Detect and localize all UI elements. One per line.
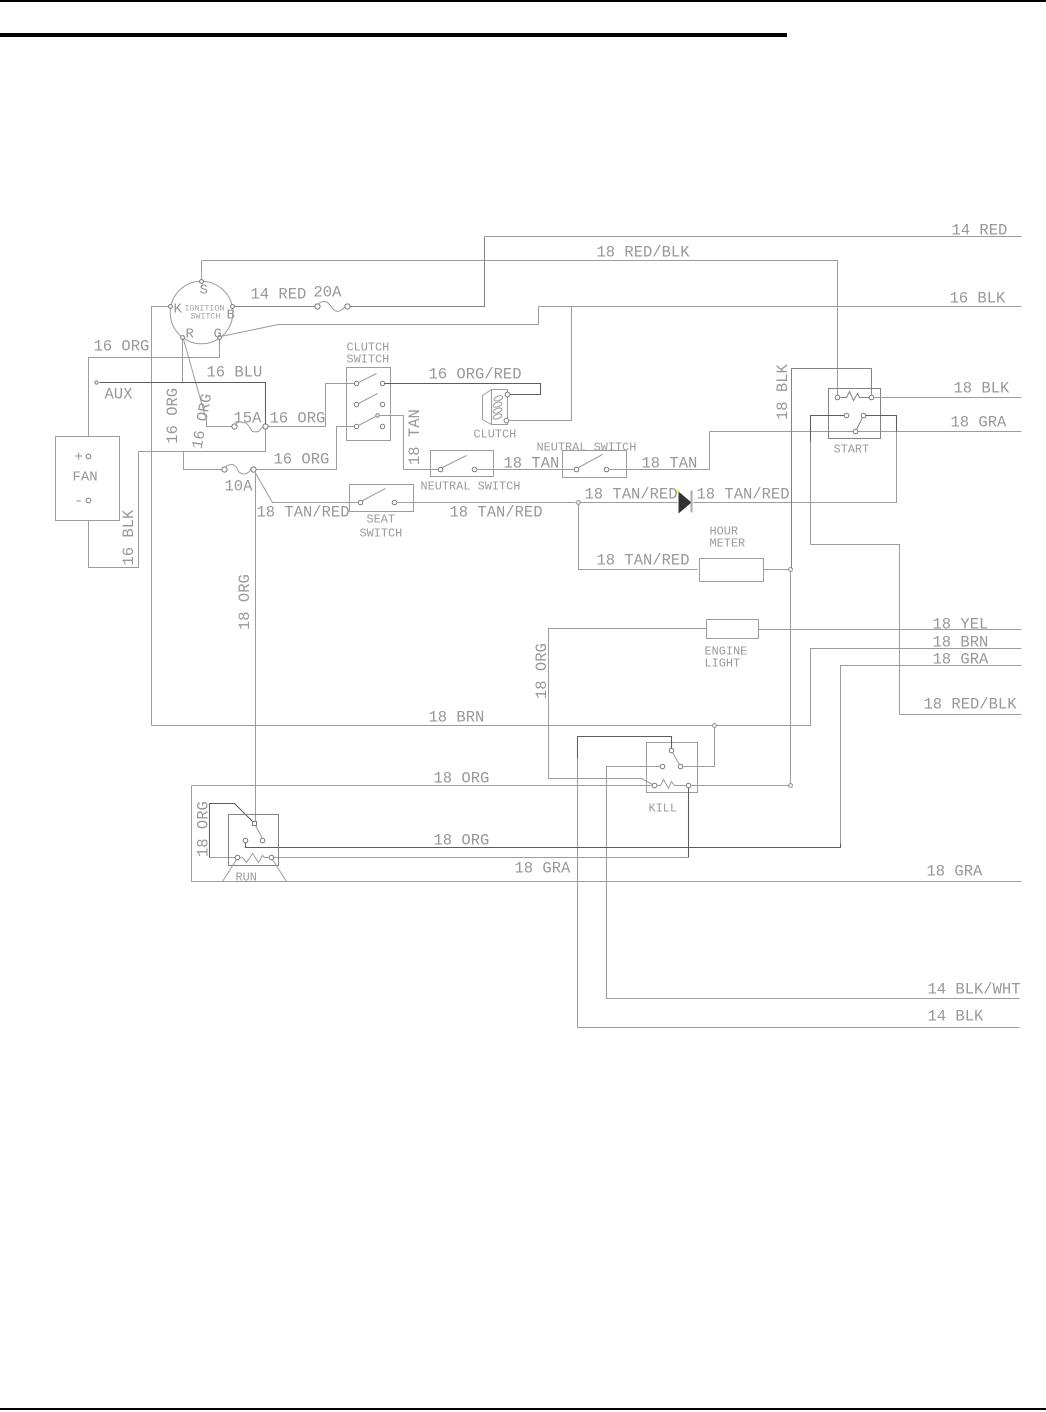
wire 18 GRA rail through START bottom xyxy=(710,431,1022,433)
wire fuse 20A to 14 RED corner xyxy=(351,237,485,307)
RUN pivot contact xyxy=(253,822,257,826)
wire branch to fuse 10A xyxy=(184,452,222,470)
page top rule thick xyxy=(0,33,787,37)
neutral switch 2 blade xyxy=(579,455,603,468)
node hour meter right xyxy=(789,568,793,572)
wire kill branch node to mid-right contact xyxy=(684,728,715,767)
svg-text:14 BLK: 14 BLK xyxy=(928,1008,985,1026)
wire vertical node to node xyxy=(790,572,792,784)
svg-text:18 RED/BLK: 18 RED/BLK xyxy=(924,696,1018,714)
fuse F1 20A xyxy=(315,304,320,309)
KILL top contact xyxy=(669,748,674,753)
neutral switch 1 contacts xyxy=(438,467,443,472)
svg-text:G: G xyxy=(214,327,222,343)
svg-text:18 TAN: 18 TAN xyxy=(642,455,698,473)
svg-text:K: K xyxy=(174,302,183,318)
svg-text:RUN: RUN xyxy=(236,871,257,885)
wire KILL top to 14 BLK chain xyxy=(578,737,672,759)
FAN plus terminal xyxy=(86,454,91,459)
START switch box xyxy=(829,389,881,439)
seat switch blade xyxy=(363,489,386,501)
page bottom rule xyxy=(0,1408,1046,1410)
svg-text:16 ORG: 16 ORG xyxy=(274,451,330,469)
svg-text:18 TAN/RED: 18 TAN/RED xyxy=(697,486,790,504)
RUN blade xyxy=(256,826,263,839)
clutch switch row1 blade xyxy=(359,374,377,383)
START top zigzag xyxy=(841,392,870,401)
svg-text:16 BLU: 16 BLU xyxy=(207,364,263,382)
wire 16 BLK loop fuse to FAN minus xyxy=(89,430,266,568)
svg-text:-: - xyxy=(75,494,83,510)
svg-text:NEUTRAL SWITCH: NEUTRAL SWITCH xyxy=(421,480,521,494)
wire hour meter feed drop xyxy=(579,504,698,570)
node kill bottom right rail xyxy=(789,784,793,788)
svg-text:16 BLK: 16 BLK xyxy=(120,509,138,566)
wire G diagonal to 16 BLK corner xyxy=(221,307,539,337)
svg-text:FAN: FAN xyxy=(73,470,98,486)
wire RUN mid-left to 18 GRA right bundle xyxy=(246,843,841,848)
wire 18 TAN/RED diode to START xyxy=(694,433,897,503)
RUN mid contacts xyxy=(243,838,248,843)
svg-text:18 YEL: 18 YEL xyxy=(933,616,989,634)
diode D1 xyxy=(679,492,692,514)
svg-text:18 ORG: 18 ORG xyxy=(236,574,254,630)
neutral switch 1 blade xyxy=(443,456,467,468)
wire START mid-left to 18 RED/BLK chain xyxy=(811,416,845,442)
svg-text:CLUTCH: CLUTCH xyxy=(474,428,517,442)
wire 18 TAN neutral switch 2 to 18 GRA rail xyxy=(609,432,710,470)
RUN diagonal legs xyxy=(223,860,237,882)
wire START top-right loop to vertical 18 BLK xyxy=(792,369,872,568)
svg-text:SWITCH: SWITCH xyxy=(191,313,221,322)
svg-text:18 BRN: 18 BRN xyxy=(933,634,989,652)
svg-text:18 TAN: 18 TAN xyxy=(504,455,560,473)
clutch switch row3 contacts xyxy=(354,424,358,428)
wire AUX 16 BLU rail xyxy=(100,383,266,425)
svg-text:16 ORG/RED: 16 ORG/RED xyxy=(429,366,522,384)
svg-text:18 TAN/RED: 18 TAN/RED xyxy=(450,504,543,522)
wire KILL bottom-right to node xyxy=(691,785,790,787)
wire KILL mid-left to 14 BLK/WHT chain xyxy=(607,767,1020,999)
node 18 BRN kill branch xyxy=(713,724,717,728)
ignition switch circle xyxy=(170,281,233,344)
wire fuse 10A diagonal to seat switch (18 TAN/RED) xyxy=(255,472,358,503)
svg-text:LIGHT: LIGHT xyxy=(705,657,741,671)
wire ignition S riser xyxy=(201,261,203,280)
wire 18 BRN long rail xyxy=(152,725,713,727)
page top rule thin xyxy=(0,0,1046,2)
svg-text:METER: METER xyxy=(710,537,746,551)
wire START mid-right to 18 TAN/RED end xyxy=(866,416,897,432)
wire ignition R diagonal to fuse 15A xyxy=(184,340,232,427)
wire big loop left vertical and 18 GRA bottom rail xyxy=(192,786,1022,882)
clutch switch row1 contacts xyxy=(354,381,358,385)
svg-text:R: R xyxy=(186,327,195,343)
svg-text:NEUTRAL SWITCH: NEUTRAL SWITCH xyxy=(537,441,637,455)
svg-text:18 TAN/RED: 18 TAN/RED xyxy=(257,504,350,522)
wire engine light left to kill feed xyxy=(549,629,707,785)
svg-text:18 BLK: 18 BLK xyxy=(774,363,792,420)
svg-text:20A: 20A xyxy=(314,284,343,302)
svg-text:18 GRA: 18 GRA xyxy=(515,860,572,878)
wire ignition R to 16 BLU rail xyxy=(182,339,184,383)
wire 18 YEL engine light to right edge xyxy=(759,629,1022,631)
neutral switch 2 contacts xyxy=(574,467,579,472)
terminal AUX xyxy=(95,381,98,384)
svg-text:14 RED: 14 RED xyxy=(952,222,1008,240)
RUN bottom contacts xyxy=(235,855,240,860)
svg-text:18 TAN: 18 TAN xyxy=(406,409,424,465)
wire ignition K down long vertical xyxy=(152,307,169,726)
terminal S xyxy=(200,280,204,284)
wire hour meter to node xyxy=(764,569,790,571)
wire 18 BLK to right edge xyxy=(875,397,1022,399)
svg-text:18 TAN/RED: 18 TAN/RED xyxy=(597,552,690,570)
clutch connector pins xyxy=(505,392,510,397)
svg-text:18 ORG: 18 ORG xyxy=(434,832,490,850)
terminal K xyxy=(169,305,173,309)
svg-text:START: START xyxy=(834,443,870,457)
neutral switch 1 box xyxy=(431,451,494,477)
node 18 TAN/RED junction xyxy=(577,501,581,505)
clutch switch row2 blade xyxy=(359,394,378,404)
fuse F2 15A xyxy=(232,424,237,429)
fuse F3 10A xyxy=(222,467,227,472)
wire 18 ORG vertical fuse to RUN xyxy=(255,472,257,822)
svg-text:SWITCH: SWITCH xyxy=(347,353,390,367)
hour meter box xyxy=(700,559,764,582)
terminal R xyxy=(181,336,185,340)
wire 18 TAN/RED seat switch to diode xyxy=(397,502,576,504)
wire fuse 15A right to clutch switch (16 ORG) xyxy=(269,384,355,427)
START blade xyxy=(857,418,863,430)
svg-text:18 ORG: 18 ORG xyxy=(434,770,490,788)
svg-text:18 ORG: 18 ORG xyxy=(533,643,551,699)
svg-text:18 BLK: 18 BLK xyxy=(954,380,1011,398)
svg-text:14 RED: 14 RED xyxy=(251,286,307,304)
wire 18 GRA stub left of RUN xyxy=(210,857,236,859)
wire KILL bottom-right down to RUN 18 GRA xyxy=(688,788,690,858)
START top row contacts xyxy=(835,395,840,400)
KILL mid contacts xyxy=(660,764,665,769)
svg-text:18 BRN: 18 BRN xyxy=(429,709,485,727)
FAN minus terminal xyxy=(86,498,91,503)
svg-text:18 TAN/RED: 18 TAN/RED xyxy=(585,486,678,504)
clutch switch row2 contacts xyxy=(354,402,358,406)
svg-text:16 ORG: 16 ORG xyxy=(270,410,326,428)
svg-text:16 ORG: 16 ORG xyxy=(164,388,182,444)
terminal B xyxy=(231,305,235,309)
svg-text:16 ORG: 16 ORG xyxy=(94,338,150,356)
neutral switch 2 box xyxy=(563,451,627,478)
KILL bottom contacts xyxy=(652,783,657,788)
wire 18 TAN between neutral switches xyxy=(478,469,574,471)
wire ignition B to fuse 20A xyxy=(235,306,315,308)
wire clutch row3 tip to neutral switch riser 18 TAN xyxy=(379,416,439,470)
clutch switch box xyxy=(347,368,391,441)
svg-text:18 ORG: 18 ORG xyxy=(195,801,213,857)
wire fuse 10A to clutch switch row3 (16 ORG) xyxy=(256,427,355,470)
svg-text:S: S xyxy=(200,283,208,299)
engine light box xyxy=(707,620,759,639)
svg-text:18 GRA: 18 GRA xyxy=(927,863,984,881)
clutch switch row3 blade and tip xyxy=(359,417,376,426)
wire 16 BLK to right edge xyxy=(539,306,1022,308)
svg-text:10A: 10A xyxy=(225,478,254,496)
KILL bottom zigzag xyxy=(657,780,686,789)
svg-text:16 BLK: 16 BLK xyxy=(950,290,1007,308)
clutch connector coil xyxy=(493,395,503,402)
wire 18 ORG rail upper xyxy=(192,785,653,787)
svg-text:16 ORG: 16 ORG xyxy=(189,392,216,450)
FAN box xyxy=(56,437,120,521)
KILL blade xyxy=(673,753,680,765)
START bottom contact xyxy=(853,429,858,434)
wire RUN pivot feed L and diagonal xyxy=(210,804,253,858)
wire ignition G stub to FAN plus (16 ORG) xyxy=(89,339,220,437)
svg-text:AUX: AUX xyxy=(105,386,134,404)
svg-text:18 GRA: 18 GRA xyxy=(951,414,1008,432)
START mid contacts xyxy=(844,413,849,418)
KILL switch box xyxy=(647,743,698,793)
wire 18 RED/BLK to right edge xyxy=(900,714,1022,716)
wire 18 RED/BLK top xyxy=(202,261,838,396)
RUN switch box xyxy=(229,815,279,866)
svg-text:14 BLK/WHT: 14 BLK/WHT xyxy=(928,981,1021,999)
svg-text:18 RED/BLK: 18 RED/BLK xyxy=(597,244,691,262)
svg-text:SEAT: SEAT xyxy=(367,513,396,527)
wire clutch switch row1 out 16 ORG/RED xyxy=(385,384,541,395)
svg-text:18 GRA: 18 GRA xyxy=(933,651,990,669)
svg-text:B: B xyxy=(227,308,235,324)
wire 14 RED top right xyxy=(485,236,1022,238)
seat switch contacts xyxy=(358,500,363,505)
svg-text:+: + xyxy=(75,450,83,466)
svg-text:15A: 15A xyxy=(234,410,263,428)
clutch connector body xyxy=(483,390,492,425)
svg-text:SWITCH: SWITCH xyxy=(360,527,403,541)
seat switch box xyxy=(350,485,414,512)
wire clutch connector drop xyxy=(510,307,572,421)
terminal G xyxy=(218,336,222,340)
svg-text:KILL: KILL xyxy=(649,802,678,816)
RUN bottom zigzag xyxy=(241,854,270,863)
